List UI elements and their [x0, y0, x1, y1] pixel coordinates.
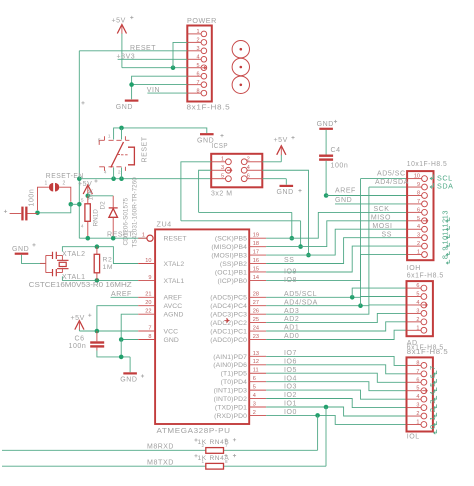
wire GND pin8: [121, 339, 138, 341]
svg-text:2: 2: [416, 317, 419, 323]
label arduino pin 2 (IOL): [428, 407, 437, 417]
wire PB4 to MISO riser: [266, 221, 407, 247]
svg-text:10: 10: [441, 235, 450, 244]
junction RN1D/RESET: [86, 236, 91, 241]
pin label 1 (SJ2): [45, 180, 48, 186]
wire PB5 to SCK riser: [266, 212, 407, 238]
svg-text:(ADC5)PC5: (ADC5)PC5: [210, 295, 247, 302]
svg-text:M8TXD: M8TXD: [147, 459, 174, 466]
svg-text:MOSI: MOSI: [372, 223, 392, 230]
wire GND to POWER pin7: [132, 84, 188, 86]
label IO4: [284, 375, 297, 382]
wire jumper pin2 down: [59, 187, 71, 202]
wire RESET row to ICSP pin5: [79, 178, 211, 180]
label IO5: [284, 367, 297, 374]
svg-text:6: 6: [416, 377, 419, 383]
wire GND to C4: [325, 130, 327, 155]
svg-text:GND: GND: [164, 337, 179, 344]
wire IO8 net: [266, 255, 407, 281]
label AD4/SDA (IOH pin9): [375, 179, 409, 186]
ground (reset switch): [197, 133, 214, 144]
svg-text:0: 0: [428, 424, 437, 429]
label arduino pin 1 (IOL): [428, 416, 437, 426]
label IO9: [284, 269, 297, 276]
svg-text:CSTCE16M0V53-R0 16MHZ: CSTCE16M0V53-R0 16MHZ: [29, 280, 133, 289]
label RESET (ZU4): [107, 232, 133, 239]
svg-text:(T1)PD5: (T1)PD5: [221, 371, 248, 378]
svg-text:4: 4: [428, 391, 437, 396]
label arduino pin 8: [441, 254, 450, 264]
svg-text:RESET-EN: RESET-EN: [46, 173, 84, 180]
svg-text:9: 9: [417, 182, 420, 188]
svg-text:3: 3: [428, 399, 437, 404]
label SS (IOH): [382, 231, 392, 238]
supply +5V (ICSP): [274, 137, 288, 155]
svg-text:1M: 1M: [103, 264, 114, 271]
svg-text:7: 7: [428, 365, 437, 370]
svg-text:4: 4: [253, 393, 256, 399]
junction MISO/PB4: [298, 244, 303, 249]
mounting hole H1: [232, 41, 249, 58]
label AD3: [284, 308, 299, 315]
svg-text:+3V3: +3V3: [117, 53, 136, 60]
label GND (IOH): [335, 197, 352, 204]
label C4: [331, 147, 341, 154]
svg-text:8: 8: [196, 88, 199, 94]
svg-text:10: 10: [145, 258, 151, 264]
wire MOSI from ICSP4: [262, 170, 308, 255]
resonator Q1 16MHz: [40, 252, 69, 276]
svg-text:R2: R2: [103, 257, 113, 264]
wire IO2 net: [266, 399, 406, 408]
pin label 2 (S1): [118, 170, 121, 176]
label arduino pin 13: [441, 210, 450, 222]
junction AVCC/C6/+5V: [95, 329, 100, 334]
label 3x2 M: [211, 188, 233, 197]
ic ZU4 right pin names: [210, 236, 247, 420]
value 1M: [103, 264, 114, 271]
svg-text:AD3: AD3: [284, 308, 299, 315]
resistor RN1D 10K: [85, 196, 90, 238]
svg-text:4: 4: [104, 170, 107, 176]
svg-text:2: 2: [63, 180, 66, 186]
label IO6: [284, 358, 297, 365]
svg-text:GND: GND: [317, 121, 334, 128]
label IO0: [284, 409, 297, 416]
wire +5V to POWER pin5: [122, 34, 187, 68]
supply +5V (reset pullup): [78, 181, 92, 195]
svg-text:RESET: RESET: [142, 136, 149, 162]
svg-text:8: 8: [225, 459, 228, 464]
svg-text:2: 2: [428, 407, 437, 412]
value CD1206-S01575 (rotated): [123, 197, 130, 245]
svg-text:6: 6: [247, 174, 250, 180]
svg-text:4: 4: [81, 224, 84, 230]
svg-text:3: 3: [416, 403, 419, 409]
svg-text:(SCK)PB5: (SCK)PB5: [215, 236, 247, 243]
connector ICSP 3x2: [211, 154, 262, 188]
pin label 2 (RN4B): [201, 443, 204, 448]
wire A5 branch: [352, 288, 406, 297]
svg-text:1: 1: [416, 419, 419, 425]
svg-text:3x2 M: 3x2 M: [211, 188, 233, 197]
wire AD4/SDA net: [266, 187, 407, 306]
svg-text:7: 7: [417, 199, 420, 205]
wire XTAL2 net: [62, 247, 138, 264]
svg-text:1: 1: [417, 250, 420, 256]
junction R2 top: [95, 244, 100, 249]
wire C6 to GND: [97, 351, 130, 357]
svg-text:1: 1: [196, 29, 199, 35]
wire jumper branch to RESET: [71, 203, 80, 205]
svg-text:23: 23: [253, 334, 259, 340]
label 6x1F-H8.5 (IOH bottom): [407, 273, 444, 280]
ic ZU4 right pins: [249, 233, 266, 416]
svg-text:10x1F-H8.5: 10x1F-H8.5: [407, 161, 448, 168]
junction C4/AREF: [324, 193, 329, 198]
svg-text:GND: GND: [12, 246, 29, 253]
label arduino pin 11: [441, 227, 450, 239]
svg-text:25: 25: [253, 317, 259, 323]
svg-text:+5V: +5V: [78, 181, 92, 188]
wire +5V to D2 cathode: [88, 195, 113, 197]
svg-text:AD0: AD0: [284, 333, 299, 340]
label SS (ZU4): [284, 257, 294, 264]
svg-text:2: 2: [253, 410, 256, 416]
pin label 5 (S1): [98, 138, 101, 144]
svg-text:IOH: IOH: [407, 265, 421, 272]
svg-text:3: 3: [221, 165, 224, 171]
label 10x1F-H8.5 (IOH): [407, 161, 448, 168]
wire M8TXD: [2, 465, 326, 467]
wire IO9 net: [266, 246, 407, 272]
wire AD2 net: [266, 313, 406, 322]
junction switch pin6: [119, 176, 124, 181]
svg-text:6: 6: [196, 71, 199, 77]
svg-text:11: 11: [441, 227, 450, 236]
ground (C6): [120, 372, 137, 383]
wire A4 branch: [361, 297, 407, 306]
svg-text:4: 4: [416, 300, 419, 306]
label IO1: [284, 401, 297, 408]
svg-text:8: 8: [441, 254, 450, 259]
wire GND to POWER pin6: [132, 76, 188, 99]
pin label 5 (RN1D): [81, 198, 84, 204]
svg-text:24: 24: [253, 325, 259, 331]
junction RESET/switch row: [77, 176, 82, 181]
junction +5V/IOREF: [171, 65, 176, 70]
label 6x1F-H8.5 (AD): [407, 344, 444, 351]
svg-text:5: 5: [196, 63, 199, 69]
svg-text:8: 8: [416, 360, 419, 366]
label D2 (rotated): [100, 201, 107, 210]
label RN1D (rotated): [93, 209, 100, 227]
svg-text:M8RXD: M8RXD: [147, 444, 174, 451]
svg-text:3: 3: [196, 46, 199, 52]
svg-text:2: 2: [201, 443, 204, 448]
svg-text:16: 16: [253, 258, 259, 264]
svg-text:20: 20: [145, 300, 151, 306]
wire IO0 to M8RXD: [317, 415, 319, 450]
svg-text:+5V: +5V: [112, 18, 126, 25]
wire GND stem: [129, 357, 131, 372]
svg-text:5: 5: [416, 292, 419, 298]
svg-text:ZU4: ZU4: [157, 220, 172, 229]
wire RESET to POWER pin3: [79, 50, 187, 52]
label AD5/SC (IOH pin10): [377, 171, 406, 178]
supply +5V (top left): [112, 18, 127, 35]
svg-text:9: 9: [148, 275, 151, 281]
label arduino pin 12: [441, 218, 450, 230]
svg-text:XTAL2: XTAL2: [164, 261, 185, 268]
value 1K (RN4B): [198, 439, 207, 446]
resistor RN4A 1K: [206, 463, 224, 469]
wire IO4 net: [266, 382, 406, 391]
svg-text:(TXD)PD1: (TXD)PD1: [215, 404, 247, 411]
label 8x1F-H8.5 (IOL): [407, 349, 449, 356]
wire ICSP pin6 to GND: [262, 179, 286, 185]
label ZU4: [157, 220, 172, 229]
wire AD0 net: [266, 330, 406, 339]
svg-text:6x1F-H8.5: 6x1F-H8.5: [407, 273, 444, 280]
wire AVCC: [97, 306, 138, 331]
label M8RXD: [147, 444, 174, 451]
label arduino pin 4 (IOL): [428, 391, 437, 401]
svg-text:D2: D2: [100, 201, 107, 210]
wire AGND: [121, 314, 138, 339]
wire D2 cathode lead: [112, 196, 114, 208]
label AREF (IOH): [335, 188, 356, 195]
svg-text:AREF: AREF: [164, 295, 183, 302]
svg-text:5: 5: [221, 174, 224, 180]
wire XTAL1 net: [62, 276, 138, 280]
svg-text:(AIN0)PD6: (AIN0)PD6: [213, 362, 247, 369]
svg-text:RESET: RESET: [130, 45, 156, 52]
label RN4B: [210, 439, 230, 446]
svg-text:(SS)PB2: (SS)PB2: [220, 261, 247, 268]
value 100n (C5, rotated): [29, 189, 36, 207]
label SCL: [430, 173, 452, 182]
svg-text:(ICP)PB0: (ICP)PB0: [217, 278, 247, 285]
svg-text:13: 13: [253, 351, 259, 357]
pin label 4 (RN1D): [81, 224, 84, 230]
svg-text:3: 3: [417, 233, 420, 239]
wire MISO from ICSP1: [181, 162, 211, 221]
label MOSI (IOH): [372, 223, 392, 230]
svg-text:SDA: SDA: [437, 182, 453, 191]
svg-text:19: 19: [253, 233, 259, 239]
solder jumper SJ2 RESET-EN: [49, 183, 59, 192]
svg-text:10: 10: [414, 174, 420, 180]
junction AD4/A4 branch: [358, 303, 363, 308]
svg-text:IO9: IO9: [284, 269, 297, 276]
label XTAL2: [62, 251, 86, 258]
label arduino pin 9: [441, 246, 450, 256]
svg-text:AD5/SC: AD5/SC: [377, 171, 406, 178]
svg-text:21: 21: [145, 292, 151, 298]
svg-text:12: 12: [441, 218, 450, 227]
wire MISO run: [181, 221, 301, 247]
ground (ICSP): [277, 185, 294, 196]
connector POWER 8x1F-H8.5: [187, 26, 212, 102]
junction R2 bottom: [95, 278, 100, 283]
label arduino pin 7 (IOL): [428, 365, 437, 375]
svg-text:(ADC2)PC2: (ADC2)PC2: [210, 320, 247, 327]
svg-text:C6: C6: [75, 335, 85, 342]
label RESET-EN: [46, 173, 84, 180]
label M8TXD: [147, 459, 174, 466]
junction C6/AGND: [119, 355, 124, 360]
pin label 8 (RN4A): [225, 459, 228, 464]
junction AGND/GND: [119, 337, 124, 342]
junction MOSI/PB3: [306, 253, 311, 258]
svg-text:IO2: IO2: [284, 392, 297, 399]
svg-text:1: 1: [108, 134, 111, 140]
svg-text:(MISO)PB4: (MISO)PB4: [211, 244, 247, 251]
wire IO1 net: [266, 407, 406, 416]
label AD4/SDA: [284, 299, 318, 306]
label AD5/SCL: [284, 291, 317, 298]
resistor R2 1M: [94, 247, 99, 281]
label XTAL1: [62, 274, 86, 281]
label arduino pin 6 (IOL): [428, 374, 437, 384]
wire SCK run: [199, 212, 292, 238]
wire AREF to IOH pin8: [326, 195, 407, 197]
wire RESET vertical: [78, 51, 80, 238]
label +3V3: [117, 53, 136, 60]
svg-text:14: 14: [253, 275, 259, 281]
svg-text:2: 2: [196, 38, 199, 44]
svg-text:100n: 100n: [331, 163, 349, 170]
svg-text:IOL: IOL: [407, 434, 420, 441]
svg-text:(ADC1)PC1: (ADC1)PC1: [210, 328, 247, 335]
svg-text:22: 22: [145, 309, 151, 315]
svg-text:1: 1: [45, 180, 48, 186]
wire switch top to GND: [114, 128, 207, 140]
svg-text:6: 6: [417, 207, 420, 213]
svg-text:4: 4: [416, 394, 419, 400]
mounting hole H2: [232, 58, 249, 75]
svg-text:8: 8: [148, 334, 151, 340]
svg-text:AREF: AREF: [111, 291, 132, 298]
value 10K (rotated): [87, 188, 94, 200]
wire AD1 net: [266, 322, 406, 331]
svg-text:(INT0)PD2: (INT0)PD2: [214, 396, 247, 403]
wire RESET row to ZU4: [79, 237, 147, 239]
junction D2/RESET: [111, 236, 116, 241]
svg-text:IO1: IO1: [284, 401, 297, 408]
capacitor C6 100n: [90, 331, 104, 351]
switch S1 (reset button): [99, 136, 134, 171]
wire switch pins down: [114, 168, 122, 179]
svg-text:POWER: POWER: [187, 16, 217, 25]
svg-text:17: 17: [253, 249, 259, 255]
svg-text:AGND: AGND: [164, 312, 184, 319]
pin label 1 (RN4A): [201, 459, 204, 464]
svg-text:GND: GND: [116, 104, 133, 111]
wire IO3 net: [266, 390, 406, 399]
svg-text:AD4/SDA: AD4/SDA: [284, 299, 318, 306]
value 1K (RN4A): [198, 455, 207, 462]
svg-text:1: 1: [142, 233, 145, 239]
label IO3: [284, 384, 297, 391]
label RESET (POWER): [130, 45, 156, 52]
svg-text:5: 5: [98, 138, 101, 144]
svg-text:XTAL1: XTAL1: [164, 278, 185, 285]
svg-text:AREF: AREF: [335, 188, 356, 195]
junction C5/jumper: [35, 211, 40, 216]
wire +3V3 to POWER pin4: [118, 58, 188, 60]
resistor RN4B 1K: [206, 448, 224, 454]
svg-text:SS: SS: [382, 231, 392, 238]
label R2: [103, 257, 113, 264]
wire +5V to VCC pin: [79, 330, 138, 331]
svg-text:(T0)PD4: (T0)PD4: [221, 379, 248, 386]
junction RESET/jumper row: [77, 202, 82, 207]
svg-text:IO4: IO4: [284, 375, 297, 382]
svg-text:13: 13: [441, 210, 450, 219]
wire jumper branch down: [38, 204, 71, 213]
svg-text:SS: SS: [284, 257, 294, 264]
svg-text:9: 9: [441, 246, 450, 251]
svg-text:AD5/SCL: AD5/SCL: [284, 291, 317, 298]
capacitor C4 100n: [319, 155, 333, 161]
svg-text:IO8: IO8: [284, 277, 297, 284]
pin label 7 (RN4B): [225, 443, 228, 448]
wire M8RXD: [2, 449, 318, 451]
label ICSP: [212, 141, 229, 150]
pin label 1 (S1): [108, 134, 111, 140]
svg-text:26: 26: [253, 309, 259, 315]
label SDA: [430, 182, 453, 191]
label IOL: [407, 434, 420, 441]
svg-text:(AIN1)PD7: (AIN1)PD7: [213, 354, 247, 361]
ground (C4): [317, 121, 334, 130]
wire SS net: [266, 238, 407, 264]
label AD0: [284, 333, 299, 340]
svg-text:1: 1: [416, 325, 419, 331]
wire +5V to junction: [87, 194, 89, 196]
svg-text:AD1: AD1: [284, 325, 299, 332]
svg-text:3: 3: [253, 401, 256, 407]
ic ZU4 left pin names: [164, 236, 187, 344]
pin label 2 (SJ2): [63, 180, 66, 186]
junction switch pin1 top: [119, 126, 124, 131]
svg-text:(ADC0)PC0: (ADC0)PC0: [210, 337, 247, 344]
svg-text:7: 7: [416, 369, 419, 375]
svg-text:AD2: AD2: [284, 316, 299, 323]
svg-text:IO0: IO0: [284, 409, 297, 416]
junction SCK/PB5: [290, 236, 295, 241]
svg-text:ATMEGA328P-PU: ATMEGA328P-PU: [157, 426, 231, 435]
label C6: [75, 335, 85, 342]
value CSTCE16M0V53-R0 16MHZ: [29, 280, 133, 289]
connector IOL 8x1F-H8.5: [407, 357, 433, 431]
svg-text:VCC: VCC: [164, 328, 179, 335]
wire ICSP pin2 to +5V: [262, 155, 281, 162]
svg-text:8x1F-H8.5: 8x1F-H8.5: [187, 103, 231, 112]
svg-text:5: 5: [428, 382, 437, 387]
svg-text:GND: GND: [335, 197, 352, 204]
svg-text:4: 4: [417, 224, 420, 230]
label RN4A: [210, 455, 230, 462]
wire GND to resonator: [22, 255, 46, 264]
svg-text:IO7: IO7: [284, 350, 297, 357]
svg-text:(OC1)PB1: (OC1)PB1: [215, 269, 247, 276]
connector IOH 10x1F-H8.5: [407, 171, 433, 260]
ic ZU4 body: [155, 229, 249, 424]
label SCK (IOH): [373, 206, 389, 213]
